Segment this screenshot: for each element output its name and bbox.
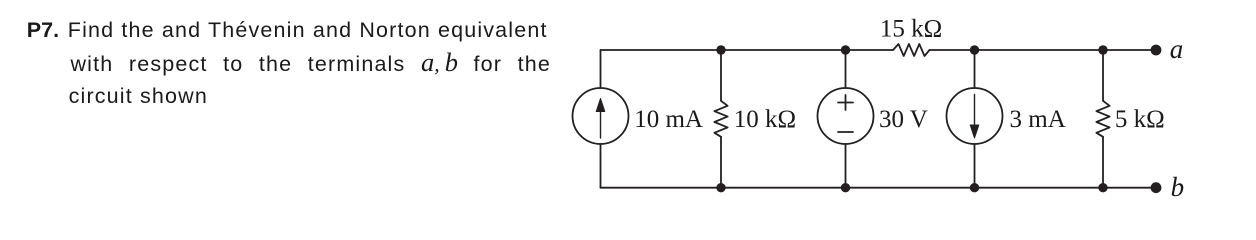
svg-text:b: b [1171, 172, 1185, 202]
voltage source plus sign [838, 95, 853, 110]
resistor R5k zigzag (vertical) [1096, 101, 1109, 137]
resistor R15k zigzag (horizontal) [893, 44, 930, 56]
wire branch V30 upper [845, 50, 847, 88]
wire top rail right segment [930, 49, 1157, 51]
wire branch I2 lower [974, 144, 976, 188]
voltage source V1 30 V circle [818, 88, 874, 144]
wire branch R5k lower [1102, 137, 1104, 188]
wire branch R5k upper [1102, 50, 1104, 101]
terminal dot a [1151, 45, 1162, 56]
wire branch V30 lower [845, 144, 847, 188]
wire branch R10k upper [720, 50, 722, 101]
voltage source minus sign [838, 131, 853, 133]
node dot top R5k [1098, 45, 1107, 54]
node dot bottom V30 [841, 183, 850, 192]
svg-text:30 V: 30 V [879, 106, 928, 133]
wire bottom rail [601, 187, 1157, 189]
svg-text:a: a [1170, 34, 1184, 64]
current source I1 10 mA circle [573, 88, 629, 144]
problem statement text [0, 0, 560, 1]
wire branch R10k lower [720, 137, 722, 188]
wire left vertical lower [600, 144, 602, 188]
node dot bottom R10k [716, 183, 725, 192]
node dot top R10k [716, 45, 725, 54]
current source I1 arrow [596, 99, 605, 139]
current source I2 3 mA circle [947, 88, 1003, 144]
svg-text:15 kΩ: 15 kΩ [880, 16, 942, 43]
current source I2 arrow [970, 95, 979, 139]
terminal dot b [1151, 182, 1162, 193]
node dot bottom R5k [1098, 183, 1107, 192]
node dot top V30 [841, 45, 850, 54]
svg-text:3 mA: 3 mA [1010, 106, 1066, 133]
node dot top I2 [970, 45, 979, 54]
node dot bottom I2 [970, 183, 979, 192]
wire branch I2 upper [974, 50, 976, 88]
wire top rail left segment [601, 49, 894, 51]
svg-text:10 kΩ: 10 kΩ [734, 106, 796, 133]
resistor R10k zigzag (vertical) [714, 101, 727, 137]
wire left vertical upper [600, 50, 602, 88]
svg-text:5 kΩ: 5 kΩ [1115, 106, 1165, 133]
svg-text:10 mA: 10 mA [634, 106, 703, 133]
